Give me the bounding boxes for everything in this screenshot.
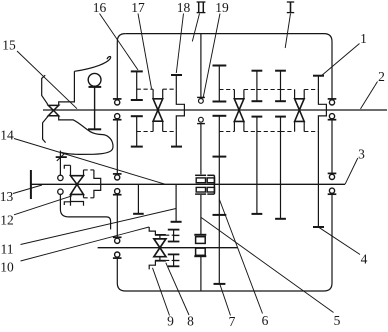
svg-text:19: 19 (215, 0, 229, 15)
svg-text:5: 5 (334, 313, 341, 327)
svg-text:18: 18 (177, 0, 191, 15)
svg-text:15: 15 (2, 38, 16, 53)
svg-text:1: 1 (360, 31, 367, 46)
svg-text:17: 17 (131, 0, 145, 15)
svg-text:8: 8 (187, 314, 194, 328)
svg-text:16: 16 (93, 0, 107, 15)
svg-text:13: 13 (0, 189, 14, 204)
svg-text:14: 14 (0, 128, 14, 143)
svg-text:7: 7 (229, 314, 236, 327)
svg-text:2: 2 (378, 69, 385, 84)
svg-text:3: 3 (358, 147, 365, 162)
svg-text:6: 6 (262, 313, 269, 327)
svg-text:4: 4 (361, 252, 368, 267)
svg-text:9: 9 (167, 314, 174, 328)
svg-text:11: 11 (1, 242, 14, 257)
svg-text:10: 10 (0, 260, 14, 275)
svg-text:12: 12 (0, 213, 14, 228)
